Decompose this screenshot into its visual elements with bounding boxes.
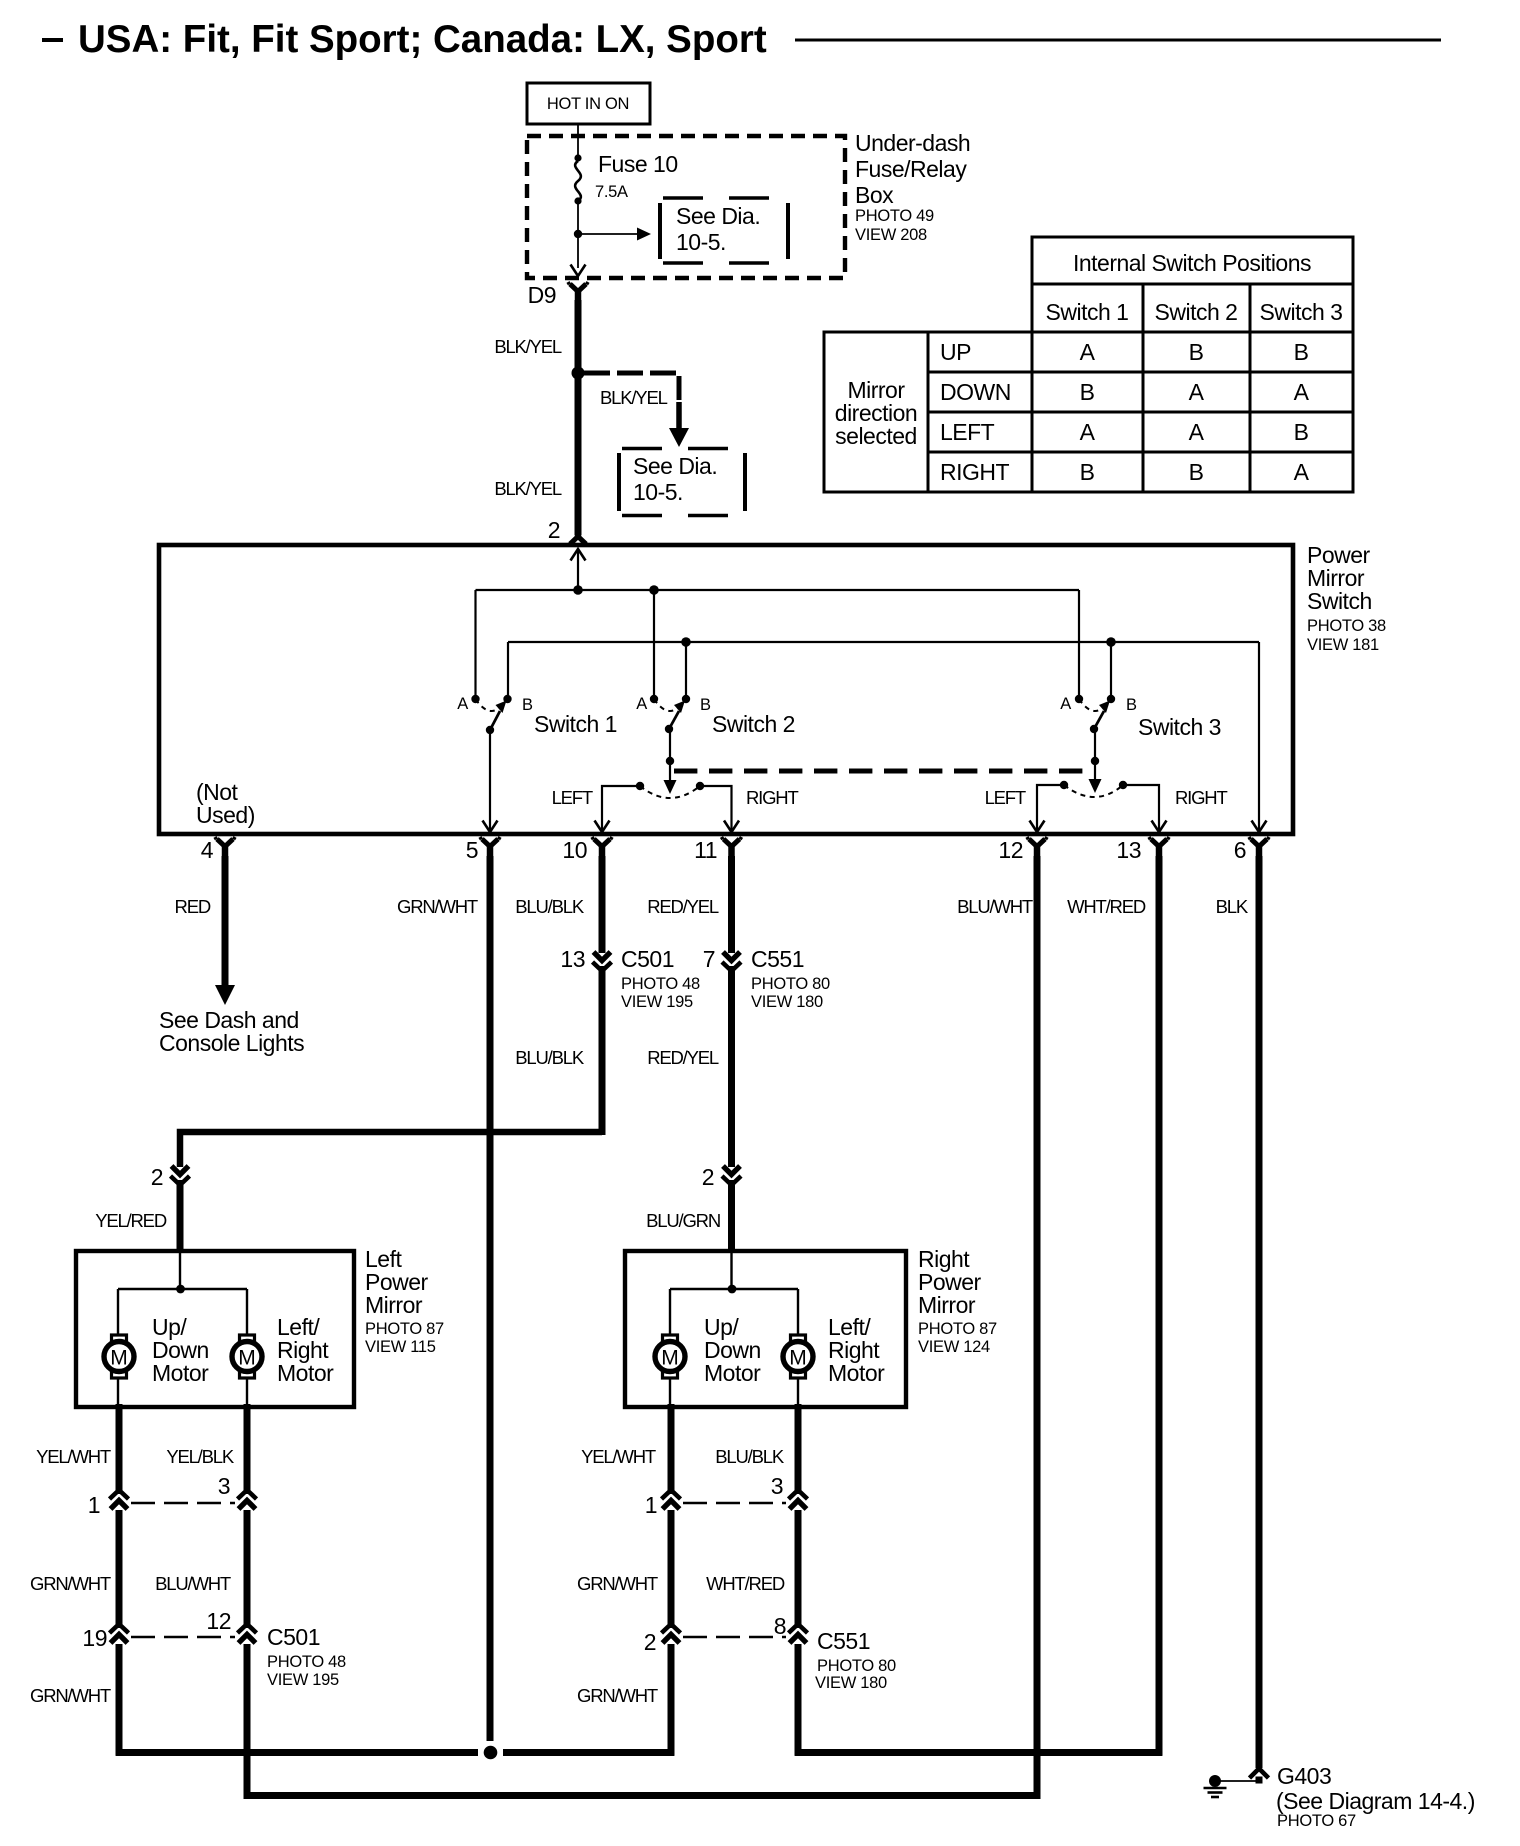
svg-text:A: A [457, 695, 468, 713]
svg-text:B: B [1126, 696, 1137, 714]
svg-text:VIEW 181: VIEW 181 [1307, 636, 1379, 654]
svg-text:Switch: Switch [1307, 588, 1372, 614]
svg-text:PHOTO 48: PHOTO 48 [267, 1653, 346, 1671]
svg-text:10-5.: 10-5. [633, 479, 683, 505]
svg-text:WHT/RED: WHT/RED [706, 1573, 785, 1594]
svg-text:Used): Used) [196, 802, 255, 828]
svg-text:BLU/WHT: BLU/WHT [155, 1573, 231, 1594]
svg-text:2: 2 [548, 517, 560, 543]
svg-text:RED/YEL: RED/YEL [647, 896, 719, 917]
svg-text:B: B [1294, 339, 1309, 365]
svg-text:VIEW 115: VIEW 115 [365, 1338, 436, 1356]
svg-text:6: 6 [1234, 837, 1246, 863]
svg-text:LEFT: LEFT [940, 419, 995, 445]
svg-text:UP: UP [940, 339, 971, 365]
svg-text:PHOTO 87: PHOTO 87 [918, 1320, 997, 1338]
svg-text:GRN/WHT: GRN/WHT [30, 1573, 111, 1594]
svg-text:C551: C551 [817, 1628, 870, 1654]
svg-text:Switch 3: Switch 3 [1138, 714, 1221, 740]
svg-text:GRN/WHT: GRN/WHT [577, 1685, 658, 1706]
svg-text:selected: selected [835, 423, 917, 449]
svg-text:BLK: BLK [1216, 896, 1249, 917]
svg-text:Switch 1: Switch 1 [1046, 299, 1129, 325]
svg-text:Fuse 10: Fuse 10 [598, 151, 678, 177]
svg-text:13: 13 [1116, 837, 1141, 863]
svg-text:PHOTO 67: PHOTO 67 [1277, 1812, 1356, 1830]
svg-text:RIGHT: RIGHT [1175, 787, 1227, 808]
svg-text:VIEW 124: VIEW 124 [918, 1338, 990, 1356]
svg-text:Motor: Motor [152, 1360, 209, 1386]
svg-text:A: A [1080, 339, 1096, 365]
svg-text:BLK/YEL: BLK/YEL [600, 387, 668, 408]
svg-text:VIEW 195: VIEW 195 [621, 993, 693, 1011]
svg-text:3: 3 [771, 1473, 783, 1499]
svg-text:1: 1 [645, 1492, 657, 1518]
svg-text:See Dia.: See Dia. [676, 203, 760, 229]
svg-text:A: A [1294, 379, 1310, 405]
svg-text:Motor: Motor [828, 1360, 885, 1386]
svg-text:C501: C501 [267, 1624, 320, 1650]
svg-text:RIGHT: RIGHT [746, 787, 798, 808]
svg-text:B: B [522, 696, 533, 714]
svg-text:See Dia.: See Dia. [633, 453, 717, 479]
svg-text:VIEW 180: VIEW 180 [815, 1674, 887, 1692]
svg-text:A: A [1189, 379, 1205, 405]
svg-text:DOWN: DOWN [940, 379, 1011, 405]
svg-text:PHOTO 80: PHOTO 80 [751, 975, 830, 993]
svg-text:4: 4 [201, 837, 214, 863]
svg-text:B: B [1189, 459, 1204, 485]
svg-text:B: B [700, 696, 711, 714]
svg-text:WHT/RED: WHT/RED [1067, 896, 1146, 917]
svg-text:PHOTO 87: PHOTO 87 [365, 1320, 444, 1338]
svg-text:2: 2 [644, 1629, 656, 1655]
svg-text:Console Lights: Console Lights [159, 1030, 304, 1056]
svg-text:7.5A: 7.5A [595, 183, 628, 201]
svg-text:PHOTO 48: PHOTO 48 [621, 975, 700, 993]
svg-text:BLU/GRN: BLU/GRN [646, 1210, 720, 1231]
svg-text:Switch 2: Switch 2 [1155, 299, 1238, 325]
svg-text:GRN/WHT: GRN/WHT [30, 1685, 111, 1706]
svg-text:10-5.: 10-5. [676, 229, 726, 255]
svg-text:B: B [1080, 379, 1095, 405]
svg-text:VIEW 195: VIEW 195 [267, 1671, 339, 1689]
svg-text:A: A [1080, 419, 1096, 445]
svg-text:BLU/BLK: BLU/BLK [715, 1446, 785, 1467]
svg-text:C551: C551 [751, 946, 804, 972]
svg-text:B: B [1294, 419, 1309, 445]
svg-text:10: 10 [562, 837, 587, 863]
svg-text:13: 13 [560, 946, 585, 972]
svg-text:(See Diagram 14-4.): (See Diagram 14-4.) [1276, 1788, 1475, 1814]
svg-text:Switch 1: Switch 1 [534, 711, 617, 737]
svg-text:BLU/BLK: BLU/BLK [515, 896, 585, 917]
svg-text:Mirror: Mirror [918, 1292, 976, 1318]
svg-text:C501: C501 [621, 946, 674, 972]
svg-text:12: 12 [998, 837, 1023, 863]
svg-text:Internal Switch Positions: Internal Switch Positions [1073, 250, 1311, 276]
svg-text:7: 7 [703, 946, 715, 972]
svg-text:A: A [1294, 459, 1310, 485]
svg-text:2: 2 [702, 1164, 714, 1190]
svg-text:PHOTO 80: PHOTO 80 [817, 1657, 896, 1675]
svg-text:Under-dash: Under-dash [855, 130, 970, 156]
svg-text:LEFT: LEFT [985, 787, 1026, 808]
svg-text:B: B [1189, 339, 1204, 365]
svg-text:VIEW 180: VIEW 180 [751, 993, 823, 1011]
svg-text:BLK/YEL: BLK/YEL [494, 478, 562, 499]
svg-text:RED/YEL: RED/YEL [647, 1047, 719, 1068]
svg-text:A: A [636, 695, 647, 713]
svg-text:A: A [1189, 419, 1205, 445]
svg-text:D9: D9 [528, 282, 556, 308]
svg-text:YEL/RED: YEL/RED [95, 1210, 167, 1231]
svg-text:Box: Box [855, 182, 894, 208]
svg-text:Mirror: Mirror [365, 1292, 423, 1318]
svg-text:YEL/WHT: YEL/WHT [581, 1446, 656, 1467]
svg-text:RIGHT: RIGHT [940, 459, 1010, 485]
svg-text:G403: G403 [1277, 1763, 1331, 1789]
svg-text:3: 3 [218, 1473, 230, 1499]
svg-text:HOT IN ON: HOT IN ON [547, 95, 629, 113]
svg-text:LEFT: LEFT [552, 787, 593, 808]
svg-text:12: 12 [206, 1608, 231, 1634]
svg-text:Motor: Motor [704, 1360, 761, 1386]
svg-text:GRN/WHT: GRN/WHT [577, 1573, 658, 1594]
svg-text:2: 2 [151, 1164, 163, 1190]
svg-text:Switch 3: Switch 3 [1260, 299, 1343, 325]
svg-text:BLU/BLK: BLU/BLK [515, 1047, 585, 1068]
svg-text:USA: Fit, Fit Sport; Canada: L: USA: Fit, Fit Sport; Canada: LX, Sport [78, 18, 767, 61]
svg-text:Motor: Motor [277, 1360, 334, 1386]
svg-text:BLK/YEL: BLK/YEL [494, 336, 562, 357]
svg-text:8: 8 [774, 1613, 786, 1639]
svg-text:Fuse/Relay: Fuse/Relay [855, 156, 967, 182]
svg-text:19: 19 [82, 1625, 107, 1651]
svg-text:YEL/BLK: YEL/BLK [166, 1446, 235, 1467]
svg-text:BLU/WHT: BLU/WHT [957, 896, 1033, 917]
svg-text:B: B [1080, 459, 1095, 485]
svg-text:PHOTO 49: PHOTO 49 [855, 207, 934, 225]
svg-text:1: 1 [88, 1492, 100, 1518]
svg-text:PHOTO 38: PHOTO 38 [1307, 617, 1386, 635]
svg-text:5: 5 [466, 837, 478, 863]
svg-text:VIEW 208: VIEW 208 [855, 226, 927, 244]
svg-text:11: 11 [694, 837, 717, 863]
svg-text:A: A [1060, 695, 1071, 713]
svg-text:GRN/WHT: GRN/WHT [397, 896, 478, 917]
svg-text:YEL/WHT: YEL/WHT [36, 1446, 111, 1467]
svg-text:Switch 2: Switch 2 [712, 711, 795, 737]
svg-text:RED: RED [175, 896, 211, 917]
